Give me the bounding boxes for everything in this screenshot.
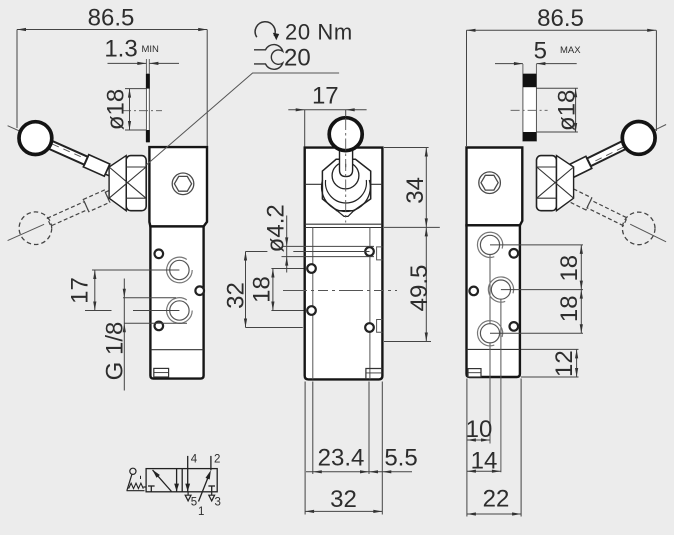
torque annotation 20 Nm xyxy=(255,20,353,45)
svg-text:18: 18 xyxy=(249,276,276,303)
port 1 thread arc xyxy=(167,257,193,283)
svg-text:23.4: 23.4 xyxy=(318,445,365,472)
cone xyxy=(109,156,126,211)
lever centerline through solid ball xyxy=(630,125,666,143)
svg-text:22: 22 xyxy=(483,485,510,512)
parting double line xyxy=(305,223,383,225)
screw hole top right xyxy=(510,249,519,258)
port extension lines right xyxy=(490,244,583,246)
lever ball (solid) xyxy=(19,122,52,155)
dimension 86.5 left xyxy=(17,5,207,147)
dimension 86.5 right xyxy=(467,5,657,146)
hex socket bolt on face xyxy=(172,173,194,195)
dimension 5 MAX xyxy=(495,38,581,66)
dimension 1.3 MIN xyxy=(104,36,179,66)
lever collar (solid) xyxy=(83,155,110,177)
screw hole bottom xyxy=(155,322,164,331)
svg-text:32: 32 xyxy=(223,282,250,309)
port 1 xyxy=(170,260,189,279)
inner face vertical lines xyxy=(312,228,314,380)
lever collar (solid) xyxy=(565,156,592,178)
dashed lever collar xyxy=(565,188,592,210)
bottom extension lines xyxy=(304,382,306,515)
centerline through dashed ball xyxy=(630,224,666,242)
dimension 22 xyxy=(467,485,521,515)
panel bar (1.3 MIN) xyxy=(146,74,149,142)
lever actuator xyxy=(130,468,136,474)
port B thread arc xyxy=(488,277,513,302)
cone cross lines xyxy=(537,167,574,198)
svg-text:32: 32 xyxy=(330,486,357,513)
dimension 14 xyxy=(467,448,501,475)
port B vertical centerline to dim 14 xyxy=(500,290,502,473)
horizontal centerline at bar xyxy=(511,109,548,111)
exhaust 3 triangle xyxy=(211,492,213,495)
svg-text:10: 10 xyxy=(466,416,493,443)
lever ball (solid) xyxy=(622,121,655,154)
right chamber diagonal 1 to 2 with up arrow xyxy=(199,473,210,502)
svg-text:34: 34 xyxy=(402,177,429,204)
leader line to nut xyxy=(146,73,339,165)
valve body lower block xyxy=(467,225,520,377)
right edge recess tabs xyxy=(377,247,383,260)
port A vertical centerline to dim 10 xyxy=(489,245,491,444)
port B xyxy=(491,280,510,299)
dimension 18 18 right xyxy=(556,245,583,333)
port 4 line with down arrow xyxy=(187,456,189,492)
svg-text:1.3: 1.3 xyxy=(104,36,137,63)
hex center line across body xyxy=(305,183,323,185)
port C thread arc xyxy=(477,321,502,346)
svg-text:20 Nm: 20 Nm xyxy=(285,20,353,45)
dimension 18 left xyxy=(249,269,304,311)
dimension ø18 right xyxy=(536,88,580,132)
svg-text:5: 5 xyxy=(534,38,547,65)
boot inner arc xyxy=(325,180,366,203)
screw hole right bottom xyxy=(365,323,374,332)
bottom notch xyxy=(154,368,169,377)
nut (side view) xyxy=(537,156,557,211)
valve symbol box xyxy=(146,469,217,492)
body parting line xyxy=(467,348,520,350)
svg-text:1: 1 xyxy=(198,506,204,518)
valve body front xyxy=(305,148,383,380)
screw hole bottom right xyxy=(510,322,519,331)
panel bar (5 MAX) xyxy=(523,74,537,141)
dimension 12 right xyxy=(521,349,579,377)
left chamber blocked port T xyxy=(150,486,152,492)
centerline through dashed ball xyxy=(8,224,45,240)
left chamber diagonal flow arrow xyxy=(153,470,172,491)
lever neck (solid) xyxy=(553,169,570,183)
cone cross lines xyxy=(109,167,146,198)
horizontal centerline xyxy=(283,290,397,292)
svg-text:14: 14 xyxy=(471,448,498,475)
lever shaft highlight xyxy=(593,147,624,162)
valve body upper block xyxy=(149,147,207,226)
wrench annotation 20 xyxy=(254,45,311,72)
exhaust 5 triangle xyxy=(187,492,189,495)
lever shaft highlight xyxy=(52,144,83,158)
svg-text:4: 4 xyxy=(191,454,198,466)
nut (side view) xyxy=(126,156,146,211)
dimension 17 ports xyxy=(67,270,180,311)
nut facet lines xyxy=(537,166,557,168)
dimension ø4.2 xyxy=(263,204,375,272)
dashed lever neck xyxy=(553,184,570,198)
dashed lever shaft xyxy=(47,202,88,226)
port A xyxy=(480,235,499,254)
svg-text:49.5: 49.5 xyxy=(406,265,433,312)
bottom extension lines xyxy=(466,379,468,517)
svg-text:3: 3 xyxy=(215,497,221,509)
screw hole right top (ø4.2) xyxy=(365,247,374,256)
hex socket bolt on face xyxy=(479,172,501,194)
ball front xyxy=(329,118,362,151)
dimension 49.5 right xyxy=(384,227,440,341)
svg-text:12: 12 xyxy=(551,350,578,377)
svg-text:G 1/8: G 1/8 xyxy=(102,322,129,381)
svg-text:5.5: 5.5 xyxy=(384,445,417,472)
valve body upper block xyxy=(467,148,523,226)
lever shaft (solid) xyxy=(47,140,88,164)
boot collar circle xyxy=(332,162,359,189)
dimension ø18 left xyxy=(103,89,147,131)
svg-text:17: 17 xyxy=(67,277,94,304)
port 2 thread arc xyxy=(167,298,193,324)
svg-text:MAX: MAX xyxy=(560,45,581,56)
dimension 32 bottom xyxy=(305,486,382,513)
dimension 17 top xyxy=(288,83,366,147)
lever centerline through solid ball xyxy=(8,126,45,142)
lever shaft (solid) xyxy=(587,141,627,167)
left chamber vertical flow with down arrow xyxy=(176,469,178,492)
screw hole right xyxy=(195,286,204,295)
port A thread arc xyxy=(477,232,502,257)
svg-text:20: 20 xyxy=(284,45,311,72)
svg-text:2: 2 xyxy=(214,454,220,466)
body parting line xyxy=(150,349,203,351)
port 2 xyxy=(170,301,189,320)
G 1/8 label and leader xyxy=(102,279,188,391)
boot outer arc xyxy=(322,180,371,211)
svg-text:ø4.2: ø4.2 xyxy=(263,204,290,252)
svg-text:ø18: ø18 xyxy=(103,89,130,130)
nut facet lines xyxy=(126,166,146,168)
lever neck (solid) xyxy=(105,166,122,180)
horizontal centerline at bar xyxy=(122,110,162,112)
dimension 23.4 / 5.5 xyxy=(306,445,418,474)
dimension 32 left xyxy=(223,252,303,328)
screw hole left bottom xyxy=(307,306,316,315)
svg-text:ø18: ø18 xyxy=(554,90,581,131)
dashed lever neck xyxy=(105,186,122,200)
dimension 10 xyxy=(466,416,493,443)
svg-text:86.5: 86.5 xyxy=(88,5,135,32)
svg-text:17: 17 xyxy=(312,83,339,110)
boot V tip xyxy=(337,211,354,217)
stem xyxy=(340,150,353,177)
vertical centerline xyxy=(345,118,347,223)
bottom-right notch xyxy=(366,369,383,380)
dashed lever ball xyxy=(19,212,52,245)
svg-text:86.5: 86.5 xyxy=(537,5,584,32)
right chamber blocked port T xyxy=(211,486,213,492)
svg-text:18: 18 xyxy=(556,255,583,282)
svg-text:5: 5 xyxy=(191,497,197,509)
screw hole top xyxy=(155,250,164,259)
chamber divider xyxy=(181,469,183,492)
screw hole mid left xyxy=(469,287,478,296)
dashed lever shaft xyxy=(587,200,627,226)
screw hole left top xyxy=(307,264,316,273)
bottom notch xyxy=(468,369,481,377)
hex nut front (octagon) xyxy=(322,159,370,210)
svg-text:18: 18 xyxy=(556,295,583,322)
dimension 34 right xyxy=(384,148,429,228)
dashed lever ball xyxy=(622,212,655,245)
port 2 line xyxy=(210,456,212,470)
port C xyxy=(480,324,499,343)
svg-text:MIN: MIN xyxy=(142,44,160,55)
valve body lower block xyxy=(150,226,203,378)
dashed lever collar xyxy=(83,190,110,212)
cone xyxy=(557,156,574,211)
